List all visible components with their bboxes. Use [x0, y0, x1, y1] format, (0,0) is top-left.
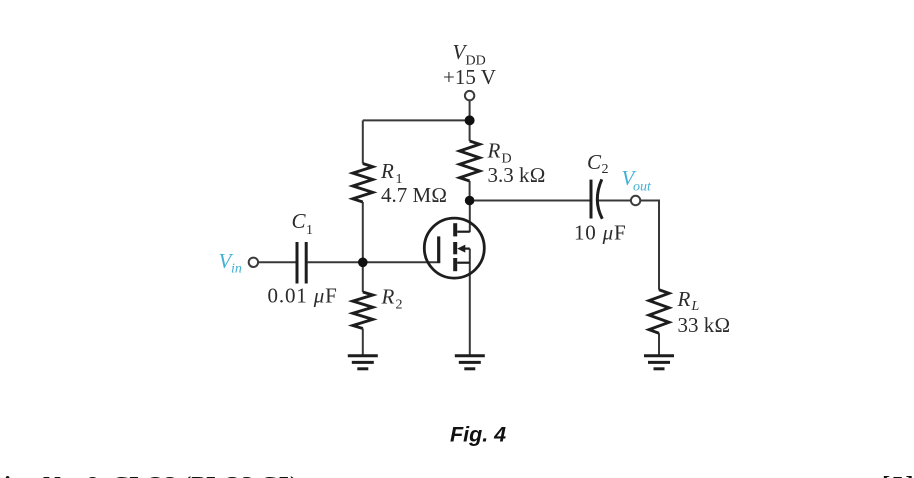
- svg-text:3.3 kΩ: 3.3 kΩ: [488, 163, 546, 187]
- svg-text:0.01 μF: 0.01 μF: [268, 284, 338, 308]
- svg-text:L: L: [691, 299, 700, 314]
- svg-text:4.7 MΩ: 4.7 MΩ: [381, 183, 447, 207]
- svg-text:R: R: [381, 285, 395, 309]
- svg-text:in: in: [231, 262, 242, 277]
- svg-text:out: out: [633, 179, 652, 194]
- svg-text:Fig. 4: Fig. 4: [450, 423, 506, 447]
- svg-text:C: C: [587, 150, 602, 174]
- svg-text:1: 1: [306, 223, 313, 238]
- svg-text:+15 V: +15 V: [443, 65, 496, 89]
- svg-text:10 μF: 10 μF: [574, 221, 626, 245]
- svg-text:2: 2: [602, 162, 609, 177]
- svg-text:33 kΩ: 33 kΩ: [678, 313, 731, 337]
- svg-text:R: R: [380, 159, 394, 183]
- svg-text:tion No. 6: CLO3 (PLO3 C5): tion No. 6: CLO3 (PLO3 C5): [0, 472, 298, 478]
- svg-text:R: R: [677, 287, 691, 311]
- svg-text:2: 2: [396, 298, 403, 313]
- svg-text:[5]: [5]: [882, 472, 914, 478]
- svg-text:R: R: [487, 139, 501, 163]
- svg-text:C: C: [292, 209, 307, 233]
